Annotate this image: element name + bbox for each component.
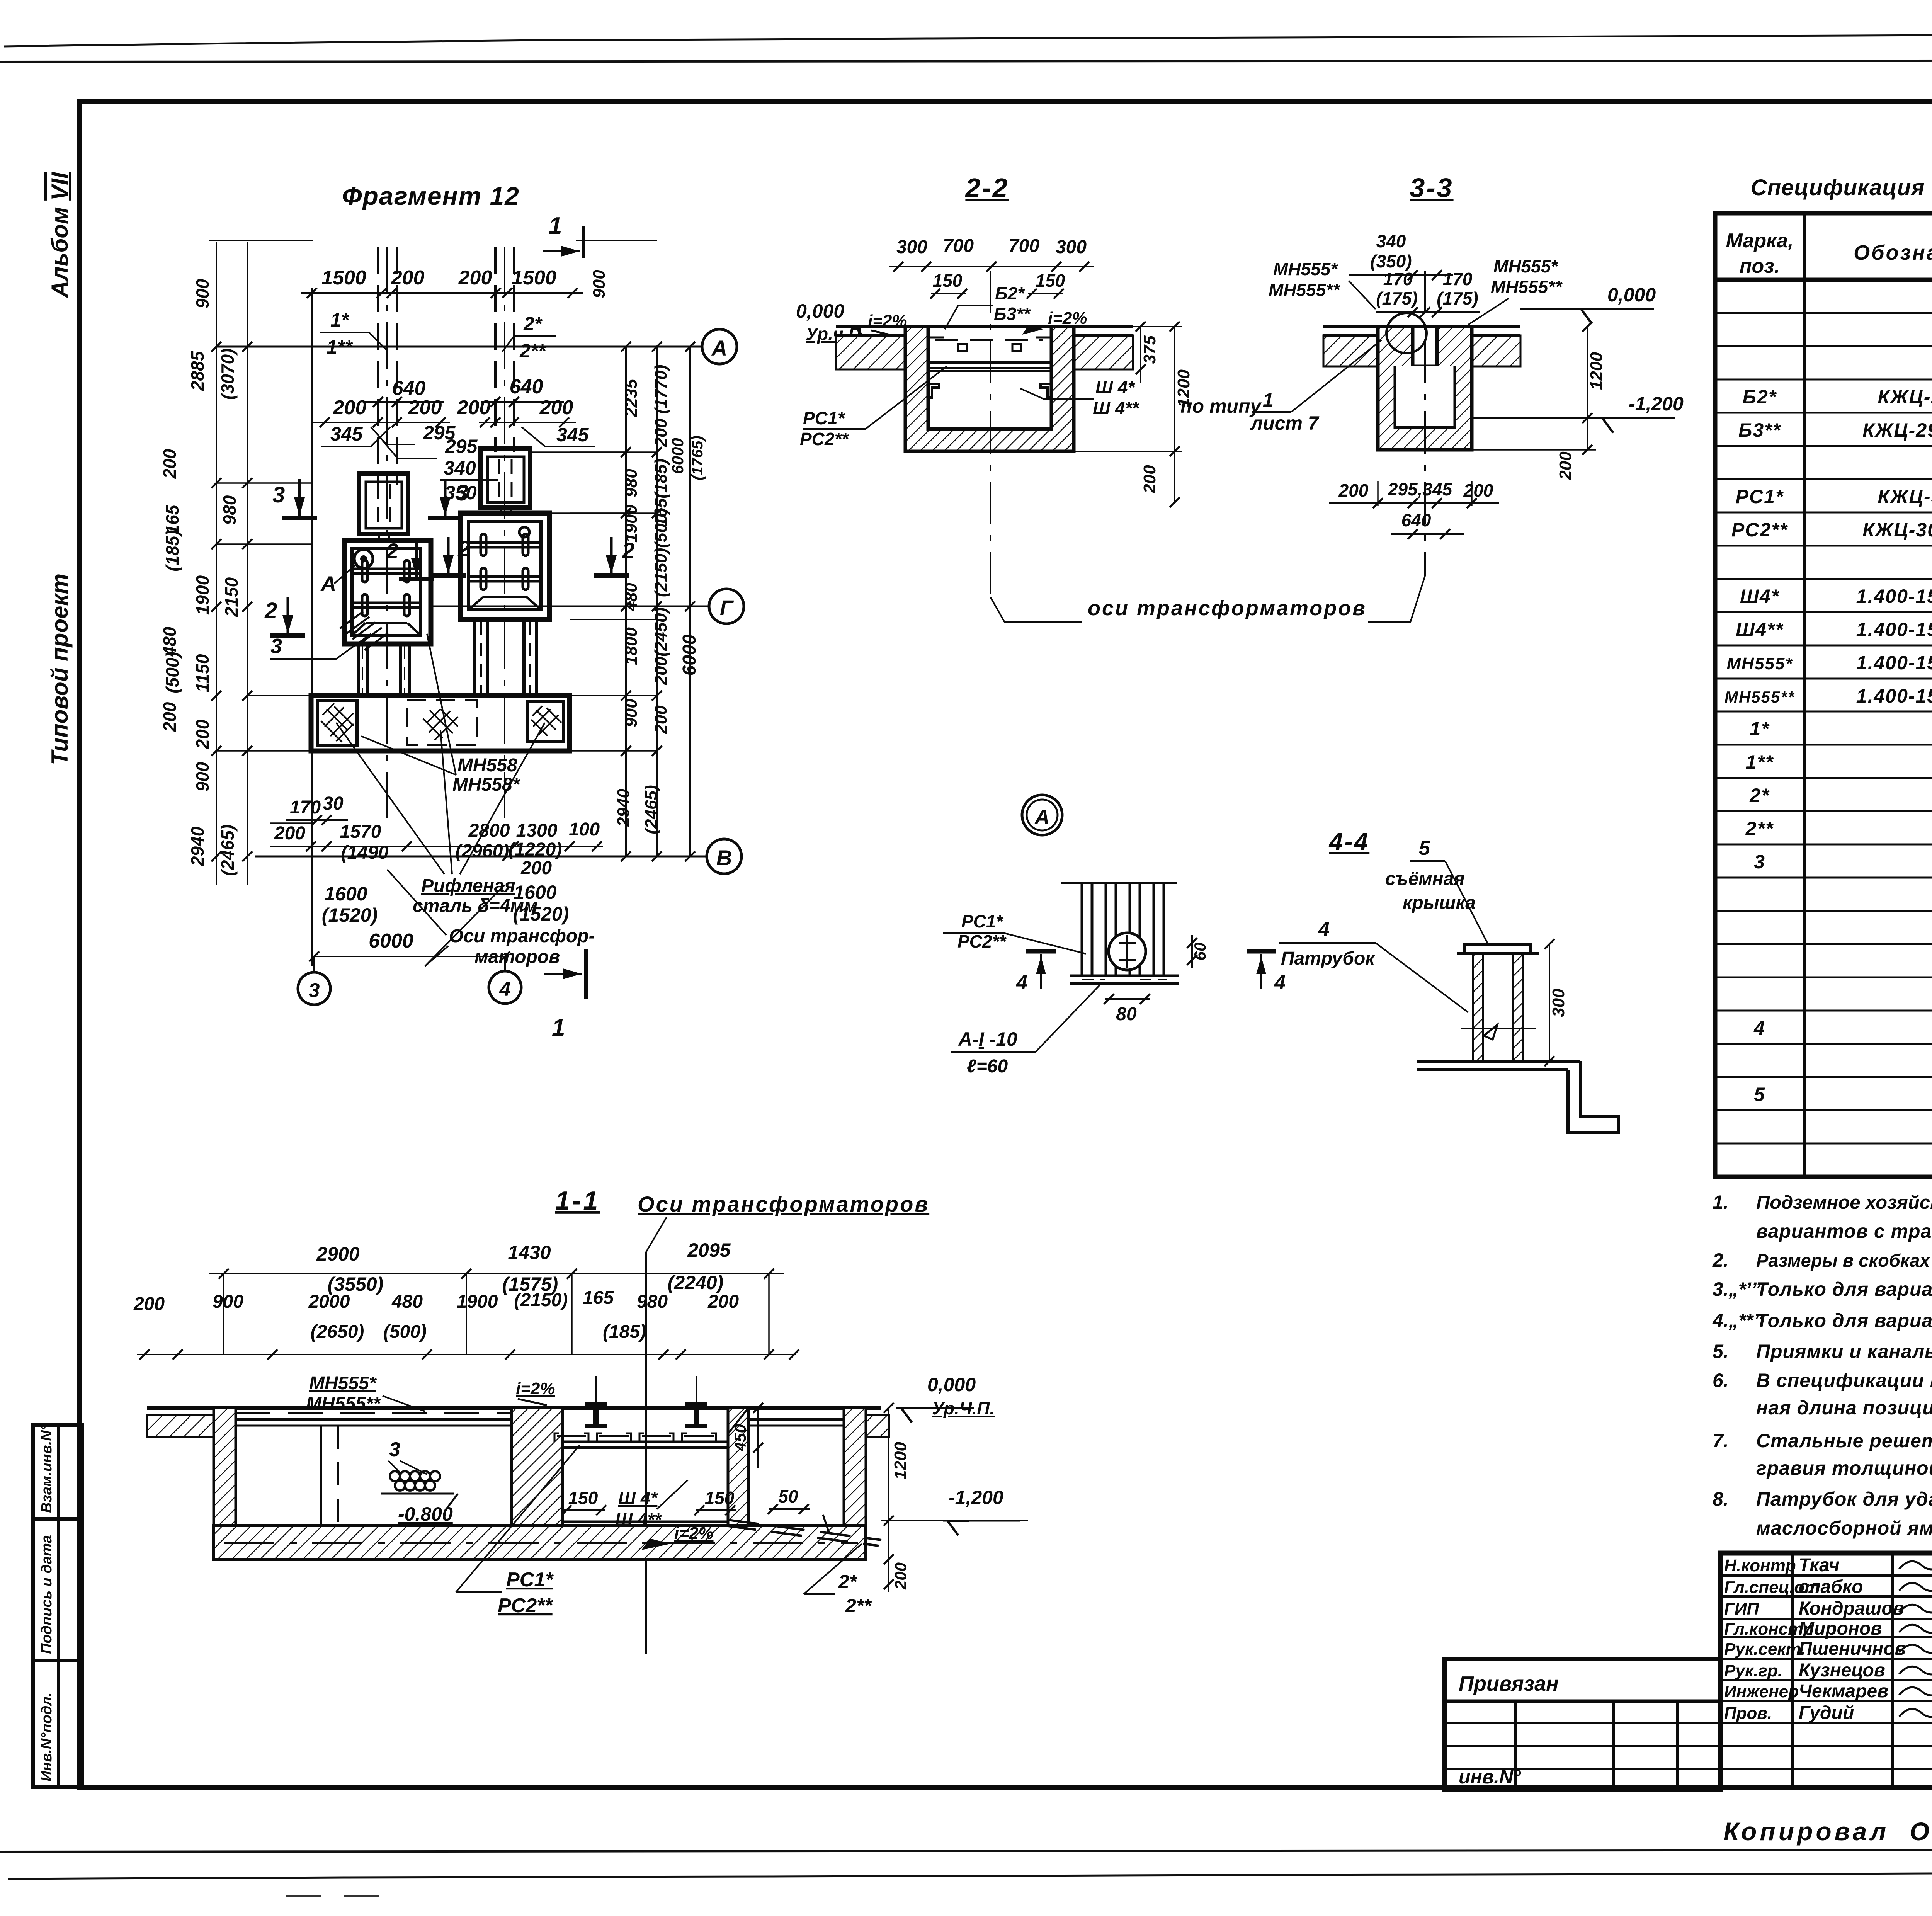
svg-text:Рук.гр.: Рук.гр. [1724,1661,1782,1680]
svg-text:Ш 4**: Ш 4** [1093,398,1139,418]
svg-text:по типу: по типу [1180,395,1262,417]
svg-text:Рук.сект.: Рук.сект. [1724,1640,1805,1659]
plan left extension line [311,288,313,966]
hatched square middle [407,700,477,745]
svg-text:1500: 1500 [321,267,366,289]
svg-text:1*: 1* [1750,718,1770,740]
svg-text:375: 375 [1140,335,1159,364]
svg-text:МН555**: МН555** [1269,280,1340,300]
svg-text:2*: 2* [1749,784,1770,806]
svg-text:Только для варианта с трансфор: Только для варианта с трансформаторами 2… [1756,1278,1932,1300]
svg-text:(1520): (1520) [513,903,569,925]
svg-text:1**: 1** [327,336,353,358]
svg-text:1200: 1200 [1587,352,1606,390]
svg-text:30: 30 [323,793,344,814]
1-1 vertical extension lines from dims [223,1274,224,1354]
svg-text:Стальные решетки в маслосборн: Стальные решетки в маслосборных ямах зас… [1756,1430,1932,1451]
svg-text:1: 1 [1263,389,1274,411]
2-2 bottom extension [1074,451,1182,452]
svg-text:200: 200 [408,396,442,419]
svg-text:5: 5 [1754,1084,1765,1105]
svg-text:Миронов: Миронов [1799,1618,1882,1639]
svg-text:(2650): (2650) [311,1322,364,1342]
svg-text:(1520): (1520) [322,904,378,926]
svg-text:0,000: 0,000 [796,300,844,322]
svg-text:МН555*: МН555* [309,1373,377,1394]
svg-text:900: 900 [192,762,213,791]
svg-text:РС2**: РС2** [498,1594,553,1617]
left foundation beams [354,568,420,570]
svg-text:2**: 2** [1745,818,1774,839]
svg-text:1.400-15 вып.1: 1.400-15 вып.1 [1856,619,1932,640]
left attribute boxes [33,1425,82,1787]
4-4 top cover [1464,944,1531,954]
svg-text:Б3**: Б3** [994,304,1031,324]
svg-text:200: 200 [333,396,367,419]
4-4 dim 300 [1549,944,1550,1061]
1-1 ground line [147,1406,881,1410]
detail A section marks 4 [1026,949,1056,954]
svg-text:4-4: 4-4 [1328,828,1370,856]
svg-text:РС1*: РС1* [1736,486,1784,507]
3-3 centerline [1424,271,1426,576]
svg-text:(175): (175) [1376,288,1417,308]
svg-text:Ш4**: Ш4** [1736,619,1784,640]
svg-text:Альбом VII: Альбом VII [47,172,73,298]
svg-text:150: 150 [1036,271,1065,291]
plan section mark 1 (top) [582,226,585,258]
svg-text:Оси трансформаторов: Оси трансформаторов [638,1192,929,1216]
svg-text:(3070): (3070) [218,349,238,400]
left transformer: foundation box [344,540,431,644]
svg-text:1.: 1. [1713,1191,1729,1213]
svg-text:345: 345 [330,423,363,445]
svg-text:поз.: поз. [1740,255,1780,277]
svg-text:1: 1 [549,213,562,239]
svg-text:Оси трансфор-: Оси трансфор- [449,926,595,946]
svg-text:1.400-15 вып.1: 1.400-15 вып.1 [1856,585,1932,607]
svg-text:Подземное хозяйство трансформа: Подземное хозяйство трансформаторной под… [1756,1192,1932,1213]
svg-text:КЖЦ-30.00: КЖЦ-30.00 [1878,486,1932,507]
svg-text:(350): (350) [1370,251,1412,271]
svg-text:МН555*: МН555* [1727,654,1793,673]
hatched square left [318,700,357,745]
svg-text:450: 450 [731,1424,749,1451]
3-3 right dims 1200 200 [1587,327,1588,450]
svg-text:300: 300 [896,237,927,257]
svg-text:А: А [320,572,336,596]
svg-text:(500): (500) [162,652,182,693]
1-1 drain dashed leader [728,1520,881,1540]
svg-text:Обозначение: Обозначение [1854,241,1932,264]
svg-text:РС2**: РС2** [1731,519,1788,541]
right transformer: upper box [481,448,530,507]
bottom faint dashes [286,1895,390,1897]
svg-text:1300: 1300 [516,820,558,841]
svg-text:3: 3 [1754,851,1765,873]
svg-text:Пшеничнов: Пшеничнов [1799,1639,1906,1659]
grid axis A [216,346,702,348]
2-2 grate [928,361,1051,364]
right grid dim 6000 [689,347,691,856]
svg-text:-1,200: -1,200 [1629,393,1684,415]
svg-text:оси трансформаторов: оси трансформаторов [1088,597,1367,620]
svg-text:Размеры в скобках даны для ва: Размеры в скобках даны для варианта с тр… [1756,1250,1932,1271]
svg-text:Марка,: Марка, [1726,230,1794,252]
svg-text:Ш4*: Ш4* [1740,585,1780,607]
svg-text:4: 4 [499,978,511,1001]
svg-text:КЖЦ-30.00-01: КЖЦ-30.00-01 [1862,519,1932,541]
svg-text:Н.контр: Н.контр [1724,1556,1796,1575]
svg-text:295,345: 295,345 [1388,479,1453,499]
svg-text:Подпись и дата: Подпись и дата [39,1535,55,1654]
svg-text:Кузнецов: Кузнецов [1799,1660,1885,1681]
right foundation beams [470,541,540,544]
svg-text:6000: 6000 [668,438,687,474]
2-2 centerline [990,271,991,597]
privyazan table [1444,1659,1720,1789]
svg-text:980: 980 [637,1292,668,1312]
2-2 right vertical dims 375 1200 200 [1140,327,1141,383]
svg-text:Патрубок: Патрубок [1281,948,1376,969]
svg-text:Рифленая: Рифленая [421,876,515,896]
svg-text:0,000: 0,000 [927,1374,976,1395]
svg-text:0,000: 0,000 [1607,284,1656,306]
svg-text:инв.N°: инв.N° [1459,1766,1521,1788]
svg-text:480: 480 [391,1292,423,1312]
svg-text:2-2: 2-2 [964,173,1009,203]
detail A top line [1061,882,1177,884]
1-1 transformer channel [563,1441,728,1443]
left dim chain lines [216,242,217,885]
extension lines from plan to right dims [570,451,657,453]
svg-text:700: 700 [943,236,974,256]
svg-text:200: 200 [133,1294,165,1314]
3-3 detail circle marker [1386,313,1427,353]
svg-text:60: 60 [1191,943,1209,961]
svg-text:съёмная: съёмная [1385,869,1465,889]
svg-text:1-1: 1-1 [555,1186,600,1215]
detail A bottom plate [1070,975,1179,977]
4-4 pipe walls hatched [1473,954,1483,1061]
svg-text:(2150): (2150) [514,1290,568,1310]
svg-text:80: 80 [1116,1004,1137,1024]
right dim chain lines [625,347,627,856]
plan right top extension [576,240,657,241]
svg-text:МН558: МН558 [457,755,517,776]
svg-text:1900: 1900 [457,1292,498,1312]
svg-text:150: 150 [568,1488,598,1508]
oil pit band [311,696,570,751]
svg-text:1600: 1600 [324,883,367,905]
svg-text:Инв.N°подл.: Инв.N°подл. [39,1692,55,1782]
4-4 base plate [1417,1060,1580,1063]
detail A marker circle [1022,795,1062,835]
svg-text:7.: 7. [1713,1430,1729,1451]
left transformer: upper box [359,473,408,534]
svg-text:ℓ=60: ℓ=60 [967,1056,1008,1077]
svg-text:КЖЦ-29.00-01: КЖЦ-29.00-01 [1862,419,1932,441]
plan axis lines of transformers (dashed) [377,247,379,485]
svg-text:170: 170 [1443,269,1473,289]
svg-text:4: 4 [1753,1017,1765,1039]
svg-text:300: 300 [1056,237,1087,257]
svg-text:200: 200 [160,449,180,479]
svg-text:200: 200 [457,396,491,419]
svg-text:340: 340 [444,457,476,479]
svg-text:РС2**: РС2** [800,429,849,449]
svg-text:50: 50 [778,1486,798,1506]
svg-text:4: 4 [1016,972,1027,994]
svg-text:1200: 1200 [891,1442,910,1480]
svg-text:6000: 6000 [369,930,413,952]
svg-text:Ткач: Ткач [1799,1555,1840,1576]
svg-text:100: 100 [569,819,600,840]
svg-text:3: 3 [272,482,285,507]
svg-text:(500): (500) [383,1322,427,1342]
svg-text:200: 200 [1556,451,1575,480]
svg-text:2: 2 [264,598,277,623]
svg-text:3: 3 [389,1438,400,1461]
svg-text:Б3**: Б3** [1738,419,1781,441]
svg-text:МН555**: МН555** [1725,688,1795,706]
1-1 right chamber [748,1418,844,1421]
svg-text:1800: 1800 [622,627,641,665]
2-2 ground line [836,325,1133,328]
svg-text:Копировал Омельченко: Копировал Омельченко [1723,1817,1932,1846]
svg-text:Фрагмент 12: Фрагмент 12 [342,182,520,210]
1-1 left outer wall [214,1408,236,1546]
extension lines from plan to left dims [216,346,311,347]
svg-text:900: 900 [590,270,609,298]
4-4 weld mark [1484,1025,1497,1040]
svg-text:3: 3 [270,635,282,658]
svg-text:2: 2 [457,536,470,562]
svg-text:170: 170 [1383,269,1413,289]
svg-text:гравия толщиной 250мм. крупнос: гравия толщиной 250мм. крупностью 30-50м… [1756,1457,1932,1479]
svg-text:2235: 2235 [622,379,641,417]
svg-text:Б2*: Б2* [1743,386,1777,408]
svg-text:6000: 6000 [679,634,700,676]
1-1 bottom slab [214,1525,866,1559]
svg-text:2095: 2095 [687,1239,731,1261]
svg-text:2: 2 [386,539,398,563]
svg-text:900: 900 [213,1292,243,1312]
svg-text:(185): (185) [603,1322,646,1342]
svg-text:В: В [716,846,732,870]
svg-text:200: 200 [458,267,492,289]
svg-text:-1,200: -1,200 [949,1487,1003,1508]
2-2 pit walls [905,327,1074,451]
legs left unit [357,644,360,696]
svg-text:1500: 1500 [512,267,556,289]
1-1 left chamber [236,1418,512,1421]
svg-text:КЖЦ-29,00: КЖЦ-29,00 [1878,386,1932,408]
svg-text:4: 4 [1318,918,1330,941]
svg-text:3-3: 3-3 [1410,173,1453,203]
grid axis Г [429,606,709,607]
svg-text:i=2%: i=2% [516,1379,555,1398]
right transformer: foundation box [461,513,549,619]
svg-text:1600: 1600 [514,881,556,903]
svg-text:1150: 1150 [192,654,213,692]
svg-text:(175): (175) [1437,288,1478,308]
svg-text:лист 7: лист 7 [1250,412,1320,434]
svg-text:2885: 2885 [187,351,207,391]
svg-text:200: 200 [707,1292,739,1312]
svg-text:МН555**: МН555** [1491,277,1563,297]
svg-text:МН555**: МН555** [306,1394,381,1414]
svg-text:i=2%: i=2% [674,1524,714,1543]
svg-text:Чекмарев: Чекмарев [1799,1681,1888,1702]
svg-text:Инженер: Инженер [1724,1682,1799,1701]
svg-text:1900: 1900 [622,505,641,543]
1-1 ground hatch blocks [147,1415,214,1437]
svg-text:900: 900 [192,279,213,308]
legs right unit [473,619,476,696]
svg-text:700: 700 [1009,236,1039,256]
svg-text:2150: 2150 [221,577,241,617]
svg-text:Кондрашов: Кондрашов [1799,1598,1904,1619]
svg-text:Ш 4*: Ш 4* [618,1488,658,1508]
svg-text:640: 640 [510,376,543,398]
svg-text:Спецификация элементов, распол: Спецификация элементов, расположенных на… [1751,175,1932,200]
1-1 centerline [645,1252,647,1654]
svg-text:Только для варианта с трансфор: Только для варианта с трансформаторами 2… [1756,1310,1932,1331]
svg-text:-0.800: -0.800 [398,1503,453,1525]
1-1 level -0.800 [381,1493,454,1495]
svg-text:2.: 2. [1712,1249,1729,1271]
svg-text:В спецификации в графе „Приме: В спецификации в графе „Примечание” дана… [1756,1370,1932,1391]
svg-text:1.400-15 вып.1: 1.400-15 вып.1 [1856,652,1932,674]
svg-text:2*: 2* [523,313,543,335]
svg-text:980: 980 [219,495,240,525]
svg-text:(185): (185) [162,530,182,571]
svg-text:150: 150 [933,271,963,291]
svg-text:200: 200 [274,823,305,844]
top scan edge wavy line [4,32,1932,46]
svg-text:(1490: (1490 [341,842,389,863]
svg-text:1.400-15 вып.1: 1.400-15 вып.1 [1856,685,1932,707]
svg-text:РС1*: РС1* [961,911,1003,931]
svg-text:слабко: слабко [1799,1577,1863,1597]
svg-text:Гудий: Гудий [1799,1703,1854,1723]
svg-text:маслосборной ямы после установ: маслосборной ямы после установки решетки… [1756,1517,1932,1539]
svg-text:Привязан: Привязан [1459,1672,1559,1695]
svg-text:340: 340 [1376,231,1406,251]
svg-text:5: 5 [1419,837,1430,859]
svg-text:170: 170 [290,797,321,818]
svg-text:8.: 8. [1713,1488,1729,1510]
svg-text:150: 150 [705,1488,735,1508]
svg-text:200: 200 [1140,465,1159,494]
spec table grid [1715,213,1932,1177]
svg-text:1900: 1900 [192,575,213,615]
svg-text:РС1*: РС1* [506,1569,554,1591]
3-3 foundation body [1378,327,1472,450]
svg-text:(2960): (2960) [456,841,509,861]
svg-text:(1220): (1220) [509,839,562,860]
plan section mark 1 (bottom) [584,949,588,999]
top margin line [0,60,1932,62]
svg-text:1: 1 [552,1014,565,1041]
svg-text:2**: 2** [845,1595,872,1617]
svg-text:300: 300 [1549,989,1568,1017]
svg-text:РС2**: РС2** [957,931,1007,951]
svg-text:980: 980 [622,469,641,497]
svg-text:(2240): (2240) [668,1272,724,1293]
svg-text:345: 345 [556,424,589,446]
3-3 inner cavity [1395,366,1455,427]
4-4 Z profile right [1568,1061,1618,1132]
svg-text:МН555*: МН555* [1273,259,1338,279]
svg-text:200: 200 [520,858,552,878]
1-1 beam sections [585,1402,607,1406]
svg-text:4.„**”: 4.„**” [1712,1310,1763,1331]
svg-text:4: 4 [1274,972,1286,994]
svg-text:295: 295 [445,436,478,457]
svg-text:(2465): (2465) [218,825,238,876]
svg-text:200: 200 [1463,480,1493,500]
svg-text:Ш 4*: Ш 4* [1095,377,1135,397]
svg-text:640: 640 [1401,510,1431,530]
svg-text:(2465): (2465) [642,785,661,834]
svg-text:6.: 6. [1713,1370,1729,1391]
svg-text:А: А [1034,806,1050,829]
2-2 corner angles [928,384,939,398]
svg-text:2**: 2** [519,340,546,362]
detail A pipe circle [1109,933,1146,970]
detail A grate bars [1081,883,1083,976]
svg-text:Типовой проект: Типовой проект [47,573,73,765]
svg-text:А-I -10: А-I -10 [957,1028,1017,1050]
leader 3 with hatch strokes (steps) [270,634,371,659]
svg-text:1*: 1* [330,309,350,331]
2-2 left ground hatch [836,335,905,369]
svg-text:Пров.: Пров. [1724,1704,1772,1723]
plan top-left extension line [209,240,313,241]
svg-text:200: 200 [391,267,425,289]
svg-text:2000: 2000 [308,1292,350,1312]
svg-text:200: 200 [891,1562,910,1590]
detail circle A on beam [354,550,373,568]
grid axis B [255,856,707,858]
3-3 ground line [1323,325,1520,328]
svg-text:Б2*: Б2* [995,283,1025,303]
svg-text:2800: 2800 [468,820,510,841]
small hole circle right box [519,527,529,537]
hatched square right [528,701,563,742]
svg-text:200: 200 [1338,480,1369,500]
svg-text:2940: 2940 [187,826,207,866]
svg-text:МН555*: МН555* [1493,256,1558,276]
svg-text:5.: 5. [1713,1341,1729,1362]
svg-text:200: 200 [651,705,670,734]
svg-text:200 (1770): 200 (1770) [651,365,670,448]
svg-text:2*: 2* [838,1571,858,1593]
2-2 right ground hatch [1074,335,1133,369]
svg-text:Г: Г [720,596,734,620]
svg-text:900: 900 [622,699,641,727]
svg-text:Ш 4**: Ш 4** [615,1509,662,1530]
svg-text:ная длина позиций 1,* 1**, 2*: ная длина позиций 1,* 1**, 2*, 2** и 3. [1756,1397,1932,1419]
svg-text:200: 200 [192,719,213,749]
1-1 dim 450 [757,1408,759,1468]
svg-text:3: 3 [456,480,468,505]
svg-text:(2150)(500): (2150)(500) [651,508,670,597]
svg-text:А: А [711,336,727,360]
svg-text:1430: 1430 [508,1242,551,1263]
